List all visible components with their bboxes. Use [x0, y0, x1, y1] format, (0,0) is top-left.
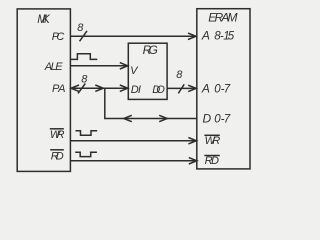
svg-text:8: 8 [81, 73, 88, 85]
svg-text:8: 8 [77, 22, 84, 34]
svg-text:ERAM: ERAM [208, 10, 237, 24]
svg-text:MK: MK [37, 14, 51, 26]
svg-text:RD: RD [51, 151, 64, 163]
svg-text:D: D [203, 111, 212, 125]
svg-text:WR: WR [50, 129, 65, 141]
svg-text:RG: RG [143, 43, 158, 57]
svg-text:15: 15 [223, 31, 235, 43]
svg-text:PA: PA [52, 83, 66, 95]
svg-text:RD: RD [205, 155, 219, 167]
svg-text:PC: PC [52, 31, 65, 43]
svg-text:8: 8 [176, 69, 183, 81]
svg-text:ALE: ALE [44, 61, 63, 73]
svg-text:7: 7 [224, 113, 231, 125]
svg-text:DO: DO [152, 84, 165, 96]
svg-text:7: 7 [224, 83, 231, 95]
svg-text:A: A [201, 29, 210, 43]
svg-text:V: V [130, 65, 139, 77]
svg-text:WR: WR [205, 135, 221, 147]
svg-text:DI: DI [131, 84, 141, 96]
svg-text:A: A [201, 81, 210, 95]
